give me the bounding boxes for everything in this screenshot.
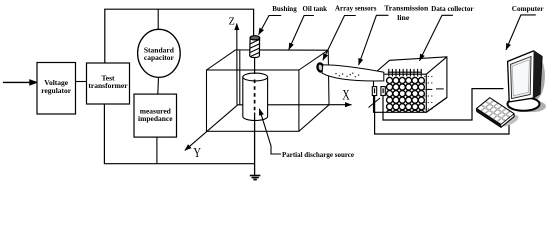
monitor base bbox=[508, 97, 540, 111]
wire impedance to bottom rail bbox=[156, 137, 158, 164]
electrode dashed line bbox=[254, 80, 256, 113]
leader bushing bbox=[259, 16, 282, 35]
array sensor bbox=[317, 63, 324, 72]
standard capacitor bbox=[138, 29, 181, 77]
svg-text:capacitor: capacitor bbox=[144, 53, 175, 62]
data collector box bbox=[374, 57, 447, 113]
svg-text:Bushing: Bushing bbox=[272, 4, 297, 13]
oil tank wireframe bbox=[207, 50, 330, 131]
leader partial discharge source bbox=[259, 109, 281, 154]
transmission line tube bbox=[322, 65, 384, 81]
leader computer bbox=[506, 15, 536, 50]
keyboard shadow bbox=[496, 112, 520, 129]
svg-text:Computer: Computer bbox=[512, 4, 544, 13]
computer monitor bbox=[508, 51, 542, 102]
svg-text:Partial discharge source: Partial discharge source bbox=[282, 150, 354, 159]
data collector side dashes bbox=[426, 88, 444, 91]
wire bottom rail bbox=[104, 104, 255, 164]
wire data collector to monitor bbox=[383, 89, 504, 120]
test transformer T1 bbox=[87, 63, 130, 104]
leader transmission line bbox=[359, 15, 389, 65]
wire top rail bbox=[105, 9, 254, 63]
svg-text:line: line bbox=[397, 13, 410, 22]
leader data collector bbox=[420, 15, 453, 60]
svg-text:Y: Y bbox=[193, 146, 201, 161]
monitor shadow bbox=[532, 55, 545, 102]
wire capacitor to impedance bbox=[157, 77, 160, 94]
Z axis bbox=[236, 24, 238, 105]
svg-text:regulator: regulator bbox=[41, 86, 72, 95]
ground wire bbox=[254, 113, 256, 175]
connector plugs bbox=[369, 87, 386, 108]
svg-text:impedance: impedance bbox=[138, 114, 173, 123]
voltage regulator box bbox=[37, 63, 76, 115]
ground bbox=[250, 176, 261, 180]
source arrow bbox=[3, 79, 38, 86]
partial discharge source cylinder bbox=[243, 73, 268, 120]
wire bushing to cylinder bbox=[254, 58, 256, 75]
svg-text:Data collector: Data collector bbox=[431, 4, 474, 13]
svg-text:Array sensors: Array sensors bbox=[335, 4, 376, 13]
leader oil tank bbox=[289, 16, 314, 50]
svg-text:Oil tank: Oil tank bbox=[303, 4, 328, 13]
bushing coil bbox=[250, 36, 260, 58]
data collector top hatch strip bbox=[388, 69, 422, 77]
leader array sensors bbox=[323, 16, 356, 61]
measured impedance box bbox=[134, 94, 177, 137]
svg-text:X: X bbox=[342, 88, 350, 104]
Y axis bbox=[185, 105, 238, 151]
data collector dots bbox=[424, 76, 432, 110]
wire regulator to transformer bbox=[76, 81, 87, 83]
wire capacitor branch top bbox=[157, 9, 159, 29]
svg-text:transformer: transformer bbox=[88, 81, 128, 90]
svg-text:Transmission: Transmission bbox=[384, 4, 429, 13]
wire data collector to keyboard bbox=[375, 96, 509, 135]
svg-text:Z: Z bbox=[229, 16, 235, 28]
keyboard bbox=[477, 98, 515, 128]
X axis bbox=[237, 104, 351, 106]
